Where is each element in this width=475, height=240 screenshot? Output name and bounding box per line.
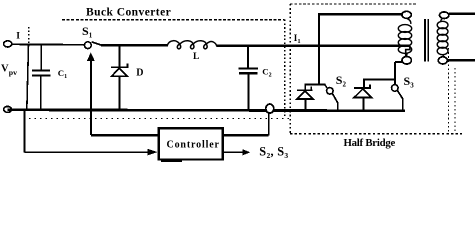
Half Bridge dashed box bottom edge	[290, 133, 462, 135]
svg-text:Buck Converter: Buck Converter	[86, 7, 171, 19]
diode D2 cathode bar tick	[310, 87, 312, 91]
diode D3 cathode bar	[354, 87, 371, 89]
wire secondary output top	[449, 13, 475, 15]
diode D bottom lead	[119, 76, 121, 110]
wire bottom rail	[8, 110, 405, 111]
diode D cathode bar tick	[126, 63, 128, 67]
diode D2 bottom lead	[304, 99, 306, 111]
controller box	[159, 128, 223, 159]
terminal oval on bottom rail	[266, 104, 274, 113]
wire S1 gate drive horizontal	[91, 134, 159, 136]
arrowhead into controller	[148, 149, 158, 155]
svg-text:S3: S3	[404, 74, 415, 90]
diode D3 top lead	[363, 80, 365, 88]
transformer secondary winding	[437, 18, 448, 56]
switch S2 blade	[332, 93, 337, 103]
wire Vpv feedback vertical	[24, 110, 26, 152]
transformer primary winding	[398, 18, 411, 56]
svg-text:I: I	[16, 31, 20, 42]
wire half-bridge riser (crosses rail)	[318, 14, 320, 85]
switch S1 blade	[92, 42, 102, 45]
diode D3 bottom lead	[363, 98, 365, 111]
svg-text:C1: C1	[58, 68, 67, 80]
wire top rail left segment	[12, 43, 85, 46]
svg-text:Vpv: Vpv	[1, 63, 17, 77]
transformer secondary bottom terminal	[438, 57, 447, 64]
svg-text:I1: I1	[294, 33, 301, 45]
switch S2 bottom lead	[337, 102, 339, 111]
svg-text:S1: S1	[82, 24, 93, 40]
PV boundary line (solid part between rails)	[27, 45, 29, 110]
svg-text:S2: S2	[336, 73, 347, 89]
capacitor C2 plates	[238, 68, 258, 70]
artifact bar below controller	[161, 160, 182, 162]
capacitor C1 bottom lead	[40, 77, 42, 111]
diode D2 triangle	[297, 91, 313, 99]
switch S2 contact circle	[327, 88, 334, 95]
wire leg A top	[305, 84, 326, 86]
transformer secondary top terminal	[440, 12, 449, 19]
Buck Converter dashed box bottom edge	[29, 118, 290, 120]
arrowhead to S1	[87, 52, 95, 61]
switch S3 blade	[397, 91, 402, 99]
capacitor C2 top lead	[247, 46, 249, 68]
svg-text:C2: C2	[262, 67, 271, 79]
diode D2 top lead	[304, 85, 306, 91]
capacitor C1 top lead	[40, 45, 42, 69]
wire leg B top	[363, 79, 395, 81]
terminal (+) PV top	[4, 41, 12, 47]
switch S3 contact circle	[392, 85, 399, 92]
wire top rail right segment	[217, 44, 410, 47]
diode D triangle	[112, 68, 128, 76]
transformer primary top terminal	[402, 11, 411, 18]
svg-text:Half Bridge: Half Bridge	[344, 137, 396, 149]
wire from oval to controller horizontal	[223, 134, 269, 136]
wire rail end jog to primary bottom	[406, 46, 410, 57]
wire Vpv feedback horizontal	[25, 151, 149, 153]
Half Bridge dashed box left edge	[289, 4, 291, 134]
Buck Converter dashed box right edge	[284, 20, 286, 119]
transformer core	[424, 19, 426, 62]
Half Bridge dashed box top edge	[290, 3, 417, 5]
diode D top lead	[119, 46, 121, 68]
svg-text:D: D	[136, 67, 143, 78]
wire top rail middle segment	[101, 44, 168, 47]
switch S1 contact circle	[84, 42, 91, 49]
wire controller output	[223, 151, 244, 153]
terminal (-) PV bottom	[4, 106, 12, 112]
capacitor C1 plates	[32, 69, 50, 71]
wire to transformer primary top	[318, 13, 402, 15]
diode D2 cathode bar	[297, 89, 312, 91]
arrowhead controller output	[243, 149, 251, 155]
svg-text:S2, S3: S2, S3	[259, 144, 288, 160]
diode D3 triangle	[354, 89, 371, 98]
svg-text:Controller: Controller	[167, 139, 220, 150]
switch S3 bottom lead	[402, 98, 404, 111]
wire from oval to controller vertical	[268, 113, 270, 135]
svg-text:L: L	[193, 52, 199, 62]
wire S3 riser	[394, 62, 396, 85]
capacitor C2 bottom lead	[248, 74, 250, 110]
Half Bridge dashed box inner right edge segment	[454, 68, 456, 133]
transformer primary bottom terminal	[402, 57, 411, 65]
diode D3 cathode bar tick	[369, 84, 371, 88]
inductor L	[167, 41, 217, 49]
Buck Converter dashed box top edge	[62, 19, 285, 21]
wire S1 gate drive vertical	[90, 57, 92, 136]
wire secondary output bottom	[447, 59, 475, 61]
PV boundary dotted vertical (top part)	[28, 27, 30, 44]
diode D cathode bar	[111, 66, 129, 68]
wire riser to primary bottom circle	[395, 61, 402, 63]
switch S2 top lead	[325, 85, 327, 88]
Half Bridge dashed box right edge	[448, 48, 450, 134]
